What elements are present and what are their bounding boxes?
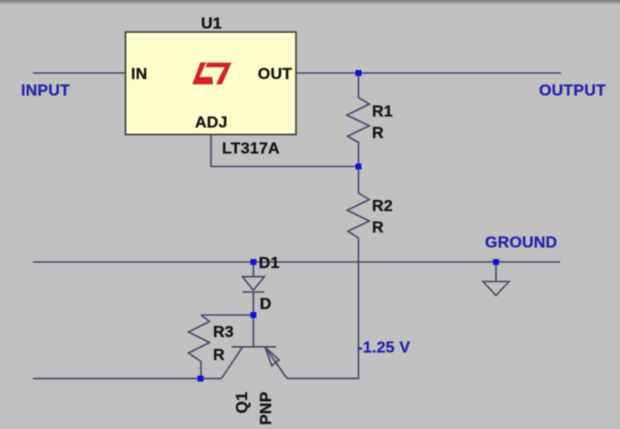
wire: INPUT to U1 IN pin	[33, 72, 126, 74]
junction: ground symbol node	[493, 259, 499, 265]
svg-text:OUT: OUT	[258, 66, 292, 83]
svg-text:R1: R1	[372, 103, 393, 120]
window top edge shading	[0, 0, 620, 5]
junction: D1 anode on ground rail	[250, 259, 256, 265]
svg-text:D1: D1	[259, 255, 280, 272]
svg-text:R: R	[372, 220, 384, 237]
wire: node D to R3 top	[201, 314, 253, 316]
ground symbol	[483, 262, 509, 296]
svg-text:R3: R3	[213, 324, 234, 341]
LT logo (red)	[192, 62, 231, 84]
svg-text:-1.25 V: -1.25 V	[357, 339, 410, 356]
svg-text:D: D	[260, 296, 272, 313]
svg-text:R: R	[372, 125, 384, 142]
junction: OUT node	[356, 70, 362, 76]
junction: node D	[250, 312, 256, 318]
wire: bottom rail to Q1 collector	[33, 378, 222, 380]
wire: U1 OUT pin to OUTPUT	[296, 72, 561, 74]
junction: ADJ node	[356, 164, 362, 170]
wire: U1 ADJ pin down and right to R1/R2 node	[211, 135, 359, 167]
svg-text:R2: R2	[372, 198, 393, 215]
junction: R3 bottom node	[198, 376, 204, 382]
resistor R2	[347, 167, 369, 239]
diode D1	[243, 262, 265, 315]
transistor Q1 (PNP)	[221, 315, 288, 379]
svg-text:Q1: Q1	[234, 392, 251, 414]
wire: R2 bottom down to Q1 emitter	[287, 238, 359, 378]
svg-text:U1: U1	[201, 16, 222, 33]
svg-text:PNP: PNP	[258, 391, 275, 425]
svg-text:ADJ: ADJ	[195, 115, 228, 132]
svg-text:INPUT: INPUT	[21, 82, 70, 99]
svg-text:LT317A: LT317A	[222, 141, 280, 158]
svg-text:GROUND: GROUND	[485, 234, 557, 251]
resistor R1	[347, 73, 369, 167]
svg-text:OUTPUT: OUTPUT	[539, 82, 606, 99]
wire: ground rail	[33, 261, 560, 263]
IC U1 LT317A body	[126, 32, 297, 135]
svg-text:IN: IN	[131, 66, 147, 83]
resistor R3	[189, 315, 210, 379]
svg-text:R: R	[213, 347, 225, 364]
